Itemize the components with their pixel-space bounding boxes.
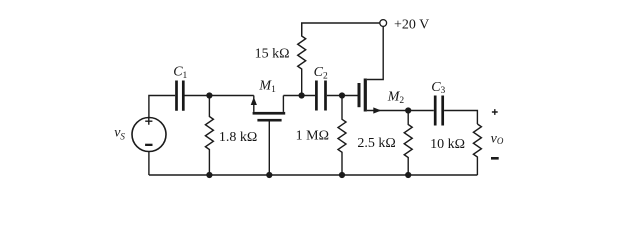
M1 channel bar bbox=[253, 112, 286, 115]
svg-text:M1: M1 bbox=[258, 79, 276, 95]
node: M1 gate at ground bbox=[266, 172, 272, 178]
node: 2.5k at ground bbox=[405, 172, 411, 178]
wire: C2 to M2 gate bbox=[327, 95, 358, 97]
capacitor C3 bbox=[435, 96, 443, 126]
M1 gate terminal to ground bbox=[268, 122, 270, 176]
svg-text:1.8 kΩ: 1.8 kΩ bbox=[219, 130, 257, 145]
wire: ground rail bbox=[149, 174, 478, 176]
svg-text:vO: vO bbox=[491, 131, 504, 146]
wire: M2 drain to +20V bbox=[367, 27, 383, 80]
resistor 2.5 kOhm bbox=[404, 111, 412, 176]
svg-text:15 kΩ: 15 kΩ bbox=[255, 47, 290, 62]
M1 source arrow bbox=[251, 97, 257, 105]
M2 source arrow bbox=[373, 107, 381, 113]
resistor 1.8 kOhm bbox=[205, 96, 213, 176]
resistor 1 MOhm bbox=[338, 96, 346, 176]
wire: source top to C1 bbox=[149, 96, 175, 118]
voltage source vs bbox=[132, 118, 166, 152]
node: C1/R gate node bbox=[206, 92, 212, 98]
node: M1 drain / 15k / C2 bbox=[299, 92, 305, 98]
resistor 10 kOhm bbox=[473, 124, 481, 175]
node: 1.8k at ground bbox=[206, 172, 212, 178]
wire: C3 to load branch bbox=[444, 111, 477, 125]
node: M2 source / 2.5k / C3 bbox=[405, 107, 411, 113]
svg-text:10 kΩ: 10 kΩ bbox=[430, 137, 465, 152]
M1 source terminal wire bbox=[253, 96, 255, 112]
wire: top rail to +20V terminal bbox=[302, 23, 380, 35]
transistor M2 bbox=[358, 79, 382, 114]
transistor M1 bbox=[251, 96, 286, 176]
svg-text:2.5 kΩ: 2.5 kΩ bbox=[357, 136, 395, 151]
svg-text:C3: C3 bbox=[431, 80, 445, 96]
resistor 15 kOhm bbox=[298, 23, 306, 96]
svg-text:C2: C2 bbox=[314, 65, 328, 82]
capacitor C1 bbox=[177, 81, 184, 111]
svg-text:vS: vS bbox=[114, 126, 125, 142]
M2 channel bar bbox=[364, 79, 367, 112]
node: C2 / 1M / M2 gate bbox=[339, 92, 345, 98]
output plus sign bbox=[492, 109, 498, 115]
node: 1M at ground bbox=[339, 172, 345, 178]
M1 drain terminal wire bbox=[282, 96, 284, 112]
M1 gate bar bbox=[257, 119, 281, 122]
svg-text:C1: C1 bbox=[173, 65, 187, 81]
wire: M1 drain row to C2 bbox=[283, 95, 315, 97]
wire: source bottom to ground rail bbox=[148, 151, 150, 175]
output minus sign bbox=[491, 157, 499, 160]
terminal +20V bbox=[380, 20, 387, 27]
svg-text:+20 V: +20 V bbox=[394, 18, 429, 33]
wire: C1 to M1 source terminal (node) bbox=[184, 95, 254, 97]
wire: M2 source row to C3 bbox=[367, 110, 434, 112]
capacitor C2 bbox=[316, 81, 325, 111]
M2 gate bar bbox=[358, 83, 361, 107]
svg-text:M2: M2 bbox=[387, 90, 405, 107]
svg-text:1 MΩ: 1 MΩ bbox=[296, 129, 329, 144]
